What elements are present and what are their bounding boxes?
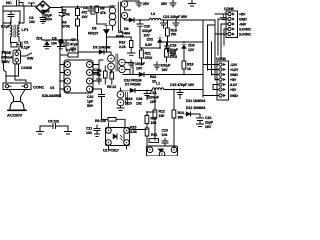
svg-text:3.3k: 3.3k	[130, 130, 137, 134]
capacitor C3 102 (bridge bottom to ground)	[29, 14, 46, 24]
svg-text:L1: L1	[156, 82, 160, 86]
svg-text:22μF: 22μF	[205, 121, 214, 125]
svg-text:102: 102	[29, 20, 35, 24]
diode R14 510	[126, 97, 132, 106]
svg-text:1k: 1k	[187, 67, 191, 71]
resistor R18 750	[166, 20, 177, 42]
label D10 FR106 (near T1)	[116, 30, 124, 39]
resistor R5 22	[107, 70, 116, 89]
wire CON4 pin feeds	[203, 65, 219, 96]
svg-text:150: 150	[159, 114, 165, 118]
svg-text:100μF: 100μF	[135, 62, 146, 66]
svg-text:R8: R8	[100, 7, 104, 11]
svg-text:C16: C16	[205, 116, 211, 120]
svg-text:L3: L3	[151, 12, 155, 16]
svg-text:C19: C19	[170, 44, 176, 48]
capacitor C20 220uF 10V	[137, 19, 153, 48]
svg-text:C13: C13	[162, 129, 168, 133]
svg-text:FR107: FR107	[88, 32, 98, 36]
svg-text:16V: 16V	[150, 100, 157, 104]
svg-text:C9 102: C9 102	[48, 120, 59, 124]
resistor R22 20	[150, 75, 156, 84]
capacitor C11 104	[86, 125, 100, 137]
resistor R4 270k	[62, 19, 80, 40]
svg-text:LF1: LF1	[22, 27, 30, 32]
ground (C9 right)	[65, 126, 72, 134]
capacitor C12 102	[94, 68, 102, 84]
svg-text:10V: 10V	[136, 67, 143, 71]
svg-text:10: 10	[97, 73, 101, 77]
wire U1 left pin stubs	[60, 65, 65, 90]
svg-text:D11 1N4004: D11 1N4004	[186, 99, 205, 103]
IC U1 KB-3A0565	[42, 60, 93, 98]
svg-text:2.2k: 2.2k	[119, 45, 126, 49]
capacitor C19 100uF 25V	[165, 42, 179, 57]
connector CON1	[3, 83, 45, 90]
svg-text:270k: 270k	[62, 13, 70, 17]
svg-text:25V: 25V	[143, 2, 150, 6]
svg-text:D7 FR240: D7 FR240	[125, 83, 141, 87]
diode D3 1N4148	[78, 46, 111, 55]
connector CON2	[13, 50, 21, 64]
capacitor C22 100uF 10V	[128, 60, 146, 71]
svg-text:6.8V: 6.8V	[145, 43, 153, 47]
wire LF1 top connections	[3, 6, 24, 25]
wire LF1 bottom connections	[11, 37, 20, 50]
svg-text:C34: C34	[136, 97, 142, 101]
capacitor C7 47uF 25V	[63, 38, 79, 51]
svg-text:AC220V: AC220V	[7, 113, 22, 118]
svg-text:104: 104	[86, 131, 92, 135]
svg-text:R19: R19	[187, 63, 193, 67]
diode D9 5404	[122, 18, 134, 36]
svg-text:CON3: CON3	[224, 7, 234, 11]
diode D6 FR107	[88, 26, 110, 53]
transformer T1 core	[118, 2, 120, 30]
svg-text:C15 470μF 16V: C15 470μF 16V	[170, 83, 195, 87]
diode D10 FR106	[124, 72, 144, 82]
svg-text:35V: 35V	[161, 2, 168, 6]
svg-text:GND: GND	[230, 73, 238, 77]
svg-text:CON2: CON2	[21, 65, 33, 70]
resistor R11 1k	[149, 133, 159, 142]
svg-text:CON1: CON1	[33, 85, 45, 90]
transformer T2 primary winding (aux)	[108, 52, 118, 73]
svg-text:R11: R11	[151, 133, 157, 137]
svg-text:-34V: -34V	[239, 23, 247, 27]
fuse FUSE 630mA 250V	[1, 51, 13, 64]
inductor L1	[152, 82, 203, 91]
wire bridge output to C5 node	[50, 6, 110, 9]
capacitor NC (top-left)	[6, 0, 35, 6]
diode D12 1N4004	[184, 106, 205, 116]
wire top bus left	[3, 5, 36, 7]
connector CON4	[216, 57, 239, 100]
resistor R6 10	[97, 66, 107, 84]
resistor R16 2.2k	[107, 37, 136, 55]
svg-text:750: 750	[171, 33, 177, 37]
capacitor C23 100uF 16V	[154, 62, 171, 72]
resistor R10 5.3k	[130, 112, 157, 147]
wire C10 down to R9	[101, 102, 103, 119]
resistor R8 47k	[95, 6, 106, 24]
svg-text:+5V: +5V	[239, 13, 246, 17]
svg-text:C21 220μF 35V: C21 220μF 35V	[163, 15, 188, 19]
svg-text:+5V: +5V	[230, 88, 237, 92]
svg-text:102: 102	[136, 102, 142, 106]
capacitor C4 104	[51, 37, 65, 49]
svg-text:U2 PC817: U2 PC817	[103, 149, 119, 153]
transformer T2 secondary circles	[119, 59, 133, 74]
AC plug symbol	[7, 90, 26, 118]
svg-text:D6: D6	[92, 27, 96, 31]
svg-text:D9: D9	[124, 27, 128, 31]
capacitor C15 470uF 16V	[170, 83, 195, 99]
svg-text:0.1μF: 0.1μF	[1, 25, 11, 29]
resistor R20 4702	[165, 42, 178, 62]
resistor R13 30k	[172, 90, 184, 148]
wire CON2 to CON1	[6, 64, 26, 83]
wire long bus verticals to connectors	[202, 20, 204, 97]
svg-text:510: 510	[126, 102, 132, 106]
svg-text:SW: SW	[27, 56, 34, 61]
svg-text:50V: 50V	[87, 104, 94, 108]
svg-text:100μF: 100μF	[168, 48, 179, 52]
svg-text:NC: NC	[6, 0, 12, 5]
wire CON3 pin feeds	[215, 14, 228, 58]
svg-text:12V: 12V	[188, 48, 195, 52]
capacitor C34 102	[136, 97, 142, 106]
svg-text:ZD1: ZD1	[36, 37, 43, 41]
svg-text:R14: R14	[126, 97, 132, 101]
svg-text:R13: R13	[178, 111, 184, 115]
svg-text:400V: 400V	[44, 18, 53, 22]
ground (CON3 GND stub)	[221, 15, 227, 20]
svg-text:4702: 4702	[145, 56, 153, 60]
svg-text:C10: C10	[87, 95, 93, 99]
svg-text:GND: GND	[230, 94, 238, 98]
svg-text:CON4: CON4	[216, 57, 226, 61]
svg-text:250V: 250V	[2, 60, 11, 64]
svg-text:C1: C1	[24, 41, 28, 45]
svg-text:1kV: 1kV	[82, 15, 89, 19]
svg-text:472: 472	[82, 11, 88, 15]
transformer T1 secondary (right circles)	[121, 1, 130, 20]
svg-text:+12V: +12V	[230, 68, 239, 72]
svg-text:1μF: 1μF	[87, 100, 94, 104]
svg-text:C11: C11	[86, 127, 92, 131]
connector CON3	[224, 7, 251, 38]
capacitor C9 102	[40, 120, 68, 129]
svg-text:R21: R21	[145, 52, 151, 56]
wire rail y40	[42, 40, 78, 52]
resistor R9 220	[95, 118, 125, 129]
wire left vertical	[2, 6, 4, 51]
svg-text:R10: R10	[151, 117, 157, 121]
svg-text:R12: R12	[159, 110, 165, 114]
svg-text:C7: C7	[71, 38, 75, 42]
zener ZD1	[36, 37, 51, 49]
svg-text:R15: R15	[130, 126, 136, 130]
capacitor C13 104	[162, 129, 169, 147]
svg-text:25V: 25V	[170, 53, 177, 57]
wire C5 bottom long vertical (primary ground rail)	[60, 21, 62, 97]
svg-text:R5 22: R5 22	[107, 85, 116, 89]
svg-text:16V: 16V	[162, 68, 169, 72]
bridge rectifier D1-D4	[36, 1, 50, 14]
svg-text:ICB-3A0565: ICB-3A0565	[42, 94, 61, 98]
svg-text:C20: C20	[144, 25, 150, 29]
svg-text:150: 150	[151, 121, 157, 125]
resistor R19 1k	[182, 49, 193, 75]
capacitor C14 2200uF 16V	[144, 91, 160, 105]
svg-text:104: 104	[162, 133, 168, 137]
svg-text:+5V: +5V	[230, 78, 237, 82]
svg-text:-12V: -12V	[230, 63, 238, 67]
ground (below C16)	[197, 124, 204, 127]
svg-text:R16: R16	[119, 41, 125, 45]
ground (C9 left)	[37, 126, 44, 134]
zener ZD3 12V	[182, 42, 195, 52]
zener ZD2 6.8V	[145, 35, 163, 48]
ground (top right)	[189, 0, 196, 6]
svg-text:D3 1N4148: D3 1N4148	[93, 46, 110, 50]
line filter LF1	[11, 25, 30, 37]
wire rail y=48	[140, 47, 160, 49]
svg-text:3.3VNC: 3.3VNC	[239, 33, 251, 37]
capacitor C10 1uF 50V	[87, 89, 105, 108]
svg-text:U1: U1	[50, 86, 54, 90]
wire snubber joins / drain node	[97, 23, 107, 25]
wire opto to R10 node	[130, 112, 156, 130]
shunt regulator TL431 (bottom box)	[147, 146, 178, 157]
diode D7 FR240	[121, 83, 153, 93]
wire secondary output rail y=20	[134, 19, 215, 21]
wire -34V rail	[123, 74, 203, 76]
capacitor C2 (X-cap box)	[11, 42, 22, 47]
svg-text:3.3V: 3.3V	[230, 83, 238, 87]
transformer T1 primary (left circles)	[109, 6, 116, 30]
svg-text:0.1μF: 0.1μF	[21, 46, 31, 50]
svg-text:16V: 16V	[205, 125, 212, 129]
svg-text:R22: R22	[150, 75, 156, 79]
optocoupler U2 PC817	[103, 128, 130, 153]
capacitor C6 472 1kV	[82, 6, 96, 19]
capacitor C5 33uF 400V	[44, 7, 65, 22]
capacitor C1 0.1uF label	[21, 41, 31, 50]
capacitor 47uF 25V (top)	[136, 1, 150, 7]
svg-text:47μF: 47μF	[70, 43, 79, 47]
switch SW	[21, 53, 32, 56]
wire fuse to CON1	[4, 62, 7, 83]
ground (below T1 low secondary)	[117, 108, 124, 111]
svg-text:C6: C6	[83, 6, 87, 10]
wire U1 right pin stubs	[93, 65, 100, 90]
resistor R7 4.7	[60, 49, 78, 58]
wire T1 secondary top to 25V cap	[125, 0, 140, 2]
svg-text:30k: 30k	[178, 116, 184, 120]
resistor R3 270k	[62, 6, 80, 19]
svg-text:D12 1N4004: D12 1N4004	[186, 106, 205, 110]
inductor L3	[149, 12, 161, 20]
svg-text:F404: F404	[122, 32, 130, 36]
diode D11 1N4004	[186, 99, 205, 103]
wire second bus y11	[3, 11, 20, 22]
svg-text:GND: GND	[239, 18, 247, 22]
svg-text:3.3VNC: 3.3VNC	[239, 28, 251, 32]
svg-text:104: 104	[51, 42, 57, 46]
resistor R21 4702	[140, 48, 153, 64]
capacitor 0.1uF (input X-cap)	[1, 11, 14, 29]
wire bottom connections	[109, 145, 127, 149]
capacitor C16 22uF 16V	[197, 114, 214, 129]
svg-text:C4: C4	[52, 37, 56, 41]
ground (below C3)	[41, 20, 46, 24]
svg-text:270k: 270k	[62, 25, 70, 29]
wire rail y=42	[160, 41, 203, 43]
svg-text:R7 4.7: R7 4.7	[66, 49, 76, 53]
svg-text:100μF: 100μF	[161, 64, 172, 68]
svg-text:ZD3: ZD3	[188, 44, 195, 48]
svg-text:47k: 47k	[100, 11, 106, 15]
svg-text:ZD2: ZD2	[147, 38, 154, 42]
transformer T1 low secondary circles	[117, 88, 127, 108]
svg-text:2200μF: 2200μF	[147, 96, 160, 100]
resistor R12 150	[153, 90, 165, 141]
capacitor 35V (top)	[161, 0, 176, 7]
svg-text:FUSE: FUSE	[2, 51, 12, 55]
capacitor (mid small)	[161, 20, 167, 28]
